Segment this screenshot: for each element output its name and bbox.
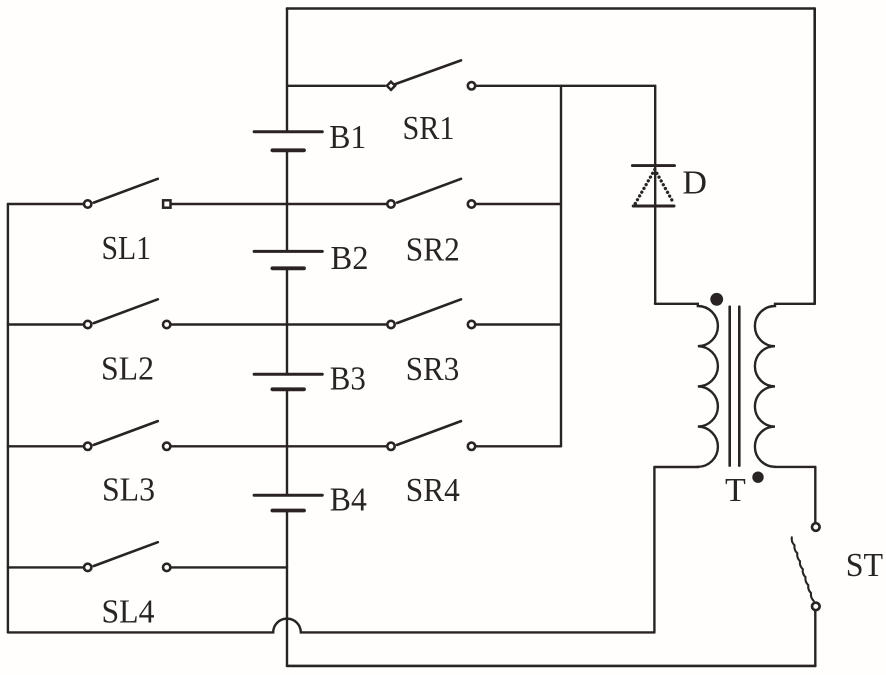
wire row2 middle (SL1 to SR2, crossing battery column)	[171, 203, 386, 205]
switch ST	[792, 523, 820, 666]
transformer T primary winding	[655, 304, 718, 467]
wire battery column B1-B2	[286, 152, 288, 251]
svg-text:SR4: SR4	[406, 472, 460, 509]
wire battery column bottom to lower rail	[286, 512, 288, 666]
switch SR1	[387, 60, 475, 89]
switch SR2	[387, 179, 475, 208]
switch SR4	[387, 421, 475, 450]
battery B3	[254, 374, 322, 389]
transformer polarity dot secondary	[752, 472, 763, 483]
svg-text:SR1: SR1	[403, 110, 455, 147]
switch SL4	[84, 542, 170, 571]
wire row3 (left bus to SL2)	[8, 323, 84, 325]
switch SR3	[387, 299, 475, 328]
battery B4	[254, 495, 322, 510]
wire row2 (left bus to SL1)	[8, 203, 84, 205]
transformer T secondary winding	[755, 304, 815, 467]
wire row5 (left bus to SL4)	[8, 566, 84, 568]
wire bottom rail	[287, 665, 815, 668]
wire battery column B2-B3	[286, 270, 288, 374]
svg-text:SR2: SR2	[406, 231, 460, 268]
wire battery column segment top	[286, 9, 288, 132]
svg-text:D: D	[682, 165, 707, 202]
switch SL1	[84, 179, 171, 208]
battery B1	[254, 132, 322, 151]
svg-text:B3: B3	[330, 360, 366, 397]
svg-text:SL2: SL2	[101, 351, 154, 388]
wire top horizontal	[287, 7, 815, 10]
wire row4 (left bus to SL3)	[8, 445, 84, 447]
diode D	[632, 86, 674, 304]
wire riser to transformer primary bottom	[653, 467, 655, 632]
wire row5 right (SL4 to battery column)	[171, 566, 287, 568]
wire right bus vertical	[560, 86, 562, 447]
svg-text:SR3: SR3	[406, 351, 460, 388]
transformer polarity dot primary	[710, 293, 723, 306]
switch SL3	[84, 421, 170, 450]
battery B2	[254, 251, 322, 268]
wire row3 middle (SL2 to SR3, crossing battery column)	[171, 323, 386, 325]
wire row4 right (SR4 to right bus)	[476, 445, 561, 447]
wire lower-left rail with hop over battery column	[8, 619, 655, 633]
svg-text:SL3: SL3	[102, 472, 155, 509]
transformer T core	[730, 307, 740, 466]
svg-text:SL4: SL4	[102, 593, 155, 630]
wire row1 left (battery column to SR1)	[287, 85, 385, 87]
svg-text:B2: B2	[331, 240, 369, 277]
wire row2 right (SR2 to right bus)	[476, 203, 561, 205]
svg-text:ST: ST	[846, 547, 884, 584]
wire row4 middle (SL3 to SR4, crossing battery column)	[171, 445, 386, 447]
wire right vertical	[813, 9, 816, 304]
svg-text:B1: B1	[329, 119, 366, 156]
svg-text:SL1: SL1	[102, 230, 152, 267]
wire row3 right (SR3 to right bus)	[476, 323, 561, 325]
wire row1 right (SR1 to diode)	[476, 85, 655, 87]
switch SL2	[84, 299, 170, 328]
svg-text:B4: B4	[330, 482, 367, 519]
wire secondary bottom to switch ST	[814, 467, 816, 522]
svg-text:T: T	[725, 472, 746, 509]
wire battery column B3-B4	[286, 391, 288, 494]
wire left bus vertical	[7, 204, 9, 632]
